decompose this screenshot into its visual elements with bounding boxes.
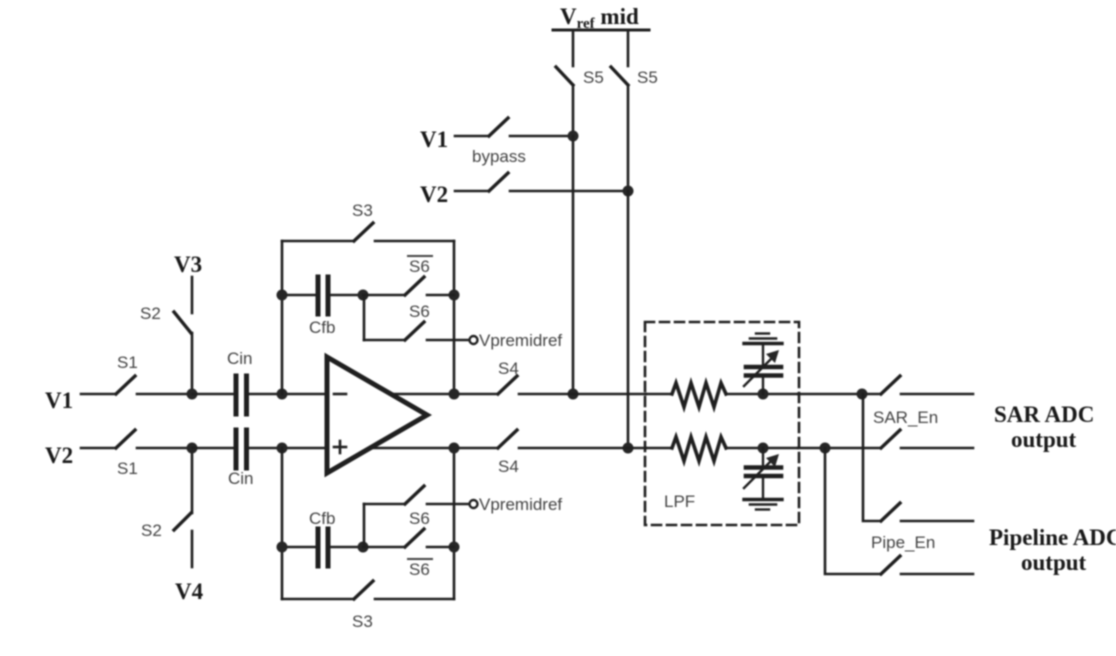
switch S4 (top) (498, 376, 646, 394)
switch S6bar (top) (363, 277, 454, 295)
label S1 (top) (117, 353, 138, 372)
wire: S6 branch vertical (bottom) (363, 504, 366, 547)
node: plus input / feedback (277, 443, 288, 454)
switch Pipe_En (bottom) (881, 556, 973, 574)
label S6bar (top) (408, 256, 432, 276)
svg-text:Vpremidref: Vpremidref (479, 331, 562, 350)
node: V2 bypass junction (623, 186, 634, 197)
svg-text:Pipeline ADC: Pipeline ADC (989, 525, 1116, 550)
label Vpremidref (bottom) (479, 495, 562, 514)
label V4 (175, 579, 204, 604)
wire: right feedback vertical (top) (453, 241, 456, 394)
svg-text:Cfb: Cfb (309, 509, 335, 528)
label Cfb (bottom) (309, 509, 335, 528)
switch S5 (right) (611, 67, 628, 191)
svg-text:Cin: Cin (228, 469, 254, 488)
svg-text:S2: S2 (140, 304, 161, 323)
wire: minus input to op-amp (282, 393, 327, 396)
node: x628 joins plus rail (623, 443, 634, 454)
wire: right feedback vertical (bottom) (453, 448, 456, 599)
wire: resistor to cap node (bottom) (726, 447, 798, 450)
label S1 (bottom) (117, 459, 138, 478)
svg-text:V1: V1 (420, 127, 448, 152)
wire: op-amp minus output (390, 393, 498, 396)
svg-text:S3: S3 (352, 612, 373, 631)
label S4 (bottom) (498, 457, 519, 476)
capacitor Cin (top) (192, 376, 282, 414)
label LPF (664, 492, 695, 511)
node Vpremidref terminal (top) (470, 336, 478, 344)
svg-text:S6: S6 (409, 560, 430, 579)
node: bottom LPF cap junction (758, 443, 769, 454)
svg-text:S5: S5 (637, 68, 658, 87)
wire: S6 branch vertical (top) (363, 295, 366, 340)
node: S2 bottom junction (187, 443, 198, 454)
wire: plus rail LPF to SAR (798, 447, 881, 450)
switch S2 (bottom) (174, 448, 192, 567)
label S3 (bottom) (352, 612, 373, 631)
capacitor Cin (bottom) (192, 430, 282, 468)
svg-text:S1: S1 (117, 353, 138, 372)
capacitor Cfb (top) (282, 277, 363, 314)
node: Cfb top mid (358, 290, 369, 301)
node: Cfb bottom left (277, 542, 288, 553)
node: S2 top junction (187, 389, 198, 400)
node: Cfb bottom right (449, 542, 460, 553)
svg-text:output: output (1021, 550, 1087, 575)
svg-text:SAR ADC: SAR ADC (994, 402, 1094, 427)
svg-text:S5: S5 (583, 68, 604, 87)
svg-text:S6: S6 (409, 509, 430, 528)
resistor R (top) (672, 383, 726, 407)
switch S5 (left) (556, 67, 573, 136)
label bypass (472, 147, 526, 166)
wire: x573 vertical to minus rail (572, 136, 575, 394)
svg-text:S1: S1 (117, 459, 138, 478)
label Pipeline ADC output (989, 525, 1116, 575)
node: Cfb top right (449, 290, 460, 301)
svg-text:output: output (1011, 427, 1077, 452)
label S6bar (bottom) (408, 559, 432, 579)
svg-text:V2: V2 (45, 443, 73, 468)
label V3 (174, 252, 202, 277)
Vref mid bus bar (553, 29, 649, 32)
label S3 (top) (352, 201, 373, 220)
switch S1 (top) (81, 376, 192, 394)
node: top LPF cap junction (758, 389, 769, 400)
switch S6 (bottom) (364, 486, 469, 504)
switch SAR_En (top) (881, 376, 973, 394)
label Cin (bottom) (228, 469, 254, 488)
wire: plus input to op-amp (282, 447, 327, 450)
switch S3 (bottom) (282, 581, 454, 599)
svg-text:V1: V1 (45, 388, 73, 413)
svg-text:LPF: LPF (664, 492, 695, 511)
label SAR_En (873, 408, 938, 427)
svg-text:Cin: Cin (227, 349, 253, 368)
switch S4 (bottom) (498, 430, 646, 448)
wire: vertical to Pipe_En (from plus) (825, 448, 881, 574)
label Cin (top) (227, 349, 253, 368)
node: Cfb bottom mid (358, 542, 369, 553)
wire: Vref bar to S5 left (572, 30, 575, 66)
switch Pipe_En (top) (881, 503, 973, 521)
svg-text:SAR_En: SAR_En (873, 408, 938, 427)
wire: left feedback vertical (top) (281, 241, 284, 394)
label S6 (bottom) (409, 509, 430, 528)
node: SAR/Pipe tap (minus) (857, 389, 868, 400)
svg-text:Pipe_En: Pipe_En (871, 533, 935, 552)
label Vpremidref (top) (479, 331, 562, 350)
wire: minus rail inside LPF (646, 393, 672, 396)
svg-text:S4: S4 (498, 359, 519, 378)
svg-text:V2: V2 (420, 182, 448, 207)
svg-text:S6: S6 (409, 302, 430, 321)
capacitor Cfb (bottom) (282, 529, 363, 566)
node: Cfb top left (277, 290, 288, 301)
variable capacitor (top, with inverted ground) (744, 334, 782, 395)
switch S2 (top) (174, 277, 192, 394)
switch bypass V1 (455, 118, 573, 136)
wire: vertical to Pipe_En (from minus) (863, 394, 881, 521)
label S2 (top) (140, 304, 161, 323)
switch S3 (top) (282, 223, 454, 241)
wire: left feedback vertical (bottom) (281, 448, 284, 599)
svg-text:S2: S2 (141, 521, 162, 540)
svg-text:S3: S3 (352, 201, 373, 220)
label SAR ADC output (994, 402, 1094, 452)
label V1 (bypass input) (420, 127, 448, 152)
wire: Vref bar to S5 right (627, 30, 630, 66)
wire: x628 vertical to plus rail (627, 191, 630, 448)
op-amp U1 (327, 357, 427, 473)
label S4 (top) (498, 359, 519, 378)
label S5 (left) (583, 68, 604, 87)
wire: minus rail LPF to SAR (798, 393, 881, 396)
label Cfb (top) (309, 318, 335, 337)
LPF dashed box (645, 322, 799, 525)
switch S1 (bottom) (81, 430, 192, 448)
label V1 (left input) (45, 388, 73, 413)
svg-text:Vref mid: Vref mid (560, 4, 639, 32)
label S6 (top) (409, 302, 430, 321)
node: bypass junction (568, 131, 579, 142)
wire: op-amp plus output (370, 447, 498, 450)
resistor R (bottom) (672, 437, 726, 461)
node Vpremidref terminal (bottom) (470, 500, 478, 508)
node: SAR/Pipe tap (plus) (820, 443, 831, 454)
node: x573 joins minus rail (568, 389, 579, 400)
svg-text:V4: V4 (175, 579, 204, 604)
variable capacitor (bottom, with ground) (744, 448, 782, 510)
switch bypass V2 (455, 173, 628, 191)
node: minus output feedback tap (449, 389, 460, 400)
svg-text:bypass: bypass (472, 147, 526, 166)
wire: plus rail inside LPF (646, 447, 672, 450)
switch S6 (top) (364, 322, 469, 340)
label S2 (bottom) (141, 521, 162, 540)
svg-text:S6: S6 (409, 257, 430, 276)
wire: resistor to cap node (top) (726, 393, 798, 396)
label S5 (right) (637, 68, 658, 87)
switch S6bar (bottom) (363, 529, 454, 547)
node: minus input / feedback (277, 389, 288, 400)
label V2 (bypass input) (420, 182, 448, 207)
svg-text:V3: V3 (174, 252, 202, 277)
svg-text:Vpremidref: Vpremidref (479, 495, 562, 514)
switch SAR_En (bottom) (881, 430, 973, 448)
label V2 (left input) (45, 443, 73, 468)
label Pipe_En (871, 533, 935, 552)
svg-text:Cfb: Cfb (309, 318, 335, 337)
svg-text:S4: S4 (498, 457, 519, 476)
label Vref mid (560, 4, 639, 32)
node: plus output feedback tap (449, 443, 460, 454)
